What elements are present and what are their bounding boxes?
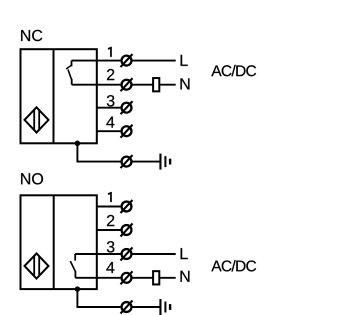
terminal 2 (NO) bbox=[121, 224, 133, 237]
sensor body outline (NC) bbox=[21, 49, 97, 143]
terminal 4 (NC) bbox=[121, 125, 133, 138]
wire: fuse to N (NO) bbox=[159, 277, 176, 279]
label AC/DC (NO) bbox=[211, 260, 256, 271]
earth ground symbol (NO) bbox=[159, 299, 171, 315]
pin number 1 (NO) bbox=[108, 192, 112, 202]
pin number 4 (NO) bbox=[106, 262, 114, 273]
wire: terminal 3 to L (NO) bbox=[132, 253, 176, 255]
fuse (NC) bbox=[153, 78, 159, 91]
wire: terminal to earth (NC) bbox=[132, 161, 160, 163]
wire: pin 2 line (NC) bbox=[72, 84, 122, 86]
terminal 3 (NO) bbox=[121, 248, 133, 261]
pin number 4 (NC) bbox=[106, 117, 114, 128]
label L (NC) bbox=[181, 55, 188, 66]
label NC bbox=[21, 30, 42, 41]
label N (NC) bbox=[181, 78, 190, 89]
wire: pin 2 stub (NO) bbox=[97, 229, 122, 231]
label AC/DC (NC) bbox=[211, 65, 256, 76]
pin number 3 (NC) bbox=[107, 95, 115, 106]
pin number 2 (NC) bbox=[107, 69, 114, 80]
pin number 2 (NO) bbox=[107, 215, 114, 226]
wire: pin 3 stub (NC) bbox=[97, 107, 122, 109]
pin number 3 (NO) bbox=[107, 241, 115, 252]
wire: pin 1 stub (NO) bbox=[97, 206, 122, 208]
label NO bbox=[21, 173, 43, 184]
earth ground symbol (NC) bbox=[159, 154, 171, 170]
wire: ground drop (NC) bbox=[77, 143, 121, 161]
NC contact switch (inside sensor) bbox=[66, 61, 72, 85]
wire: pin 1 line (NC) bbox=[72, 60, 122, 62]
terminal 1 (NO) bbox=[121, 200, 133, 213]
sensor body outline (NO) bbox=[21, 195, 97, 289]
wire: pin 3 line (NO) bbox=[75, 253, 121, 255]
NO contact switch (inside sensor) bbox=[70, 254, 75, 278]
sensor internal divider (NO) bbox=[53, 195, 55, 289]
wire: ground drop (NO) bbox=[77, 289, 121, 307]
proximity sensor diamond symbol (NC) bbox=[25, 107, 49, 132]
proximity sensor diamond symbol (NO) bbox=[25, 253, 49, 278]
wire: pin 4 stub (NC) bbox=[97, 130, 122, 132]
wire: terminal 4 to fuse (NO) bbox=[132, 277, 154, 279]
pin number 1 (NC) bbox=[108, 47, 112, 57]
ground terminal (NO) bbox=[121, 301, 133, 314]
sensor internal divider (NC) bbox=[53, 49, 55, 143]
wire: terminal 1 to L (NC) bbox=[132, 60, 176, 62]
ground terminal (NC) bbox=[121, 155, 133, 168]
terminal 2 (NC) bbox=[121, 78, 133, 91]
terminal 1 (NC) bbox=[121, 54, 133, 67]
wire: terminal 2 to fuse (NC) bbox=[132, 84, 154, 86]
junction on sensor bottom (NC) bbox=[75, 141, 81, 147]
junction on sensor bottom (NO) bbox=[75, 286, 81, 292]
label L (NO) bbox=[181, 248, 188, 259]
terminal 4 (NO) bbox=[121, 271, 133, 284]
label N (NO) bbox=[181, 271, 190, 282]
wire: pin 4 line (NO) bbox=[75, 277, 121, 279]
fuse (NO) bbox=[153, 271, 159, 284]
wire: terminal to earth (NO) bbox=[132, 306, 160, 308]
wire: fuse to N (NC) bbox=[159, 84, 176, 86]
terminal 3 (NC) bbox=[121, 101, 133, 114]
